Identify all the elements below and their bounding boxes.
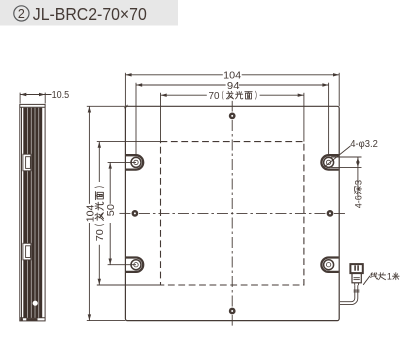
mounting tab bottom-left <box>126 258 143 272</box>
svg-text:JL-BRC2-70×70: JL-BRC2-70×70 <box>33 4 147 24</box>
dim text 70 (emitting face) rotated <box>95 187 106 242</box>
panel outline <box>125 106 339 320</box>
side view inner left line <box>21 107 23 318</box>
dim 4-6deep3 <box>331 157 361 197</box>
centerline vertical <box>231 101 233 326</box>
centerline horizontal <box>118 212 346 214</box>
side view clip lower <box>23 243 31 260</box>
side view bottom dark feet <box>20 318 37 320</box>
mid-edge dot top <box>229 113 236 120</box>
svg-text:3: 3 <box>353 180 364 185</box>
corner tick top-left <box>124 105 127 108</box>
side view bottom cap line <box>20 317 45 319</box>
svg-text:4-6: 4-6 <box>353 195 364 208</box>
mid-edge dot left <box>132 210 139 217</box>
label 4-phi3.2 with leader <box>323 146 350 168</box>
dim text 4-6 deep 3 rotated <box>353 180 364 208</box>
svg-text:104: 104 <box>85 204 96 222</box>
side view clip upper <box>23 154 31 171</box>
svg-text:70: 70 <box>209 91 220 102</box>
light emitting area dashed square <box>161 142 304 285</box>
side view hole <box>33 301 38 306</box>
mounting tab top-left <box>126 155 143 169</box>
svg-text:10.5: 10.5 <box>52 90 70 101</box>
header circled 2 <box>14 6 29 21</box>
dim 70 (emitting face) horizontal <box>161 93 304 142</box>
svg-text:1: 1 <box>387 272 392 282</box>
cable curve <box>340 285 358 304</box>
svg-text:70: 70 <box>95 229 106 241</box>
connector neck <box>355 283 359 285</box>
dim text 70 (emitting face) <box>209 91 257 102</box>
svg-text:50: 50 <box>106 204 117 217</box>
mounting tab top-right <box>321 155 338 169</box>
mid-edge dot right <box>327 210 334 217</box>
dim 104 vertical <box>87 106 126 320</box>
mounting tab bottom-right <box>321 258 338 272</box>
dimension 10.5 <box>20 93 51 104</box>
connector body lower <box>352 273 361 283</box>
connector body upper <box>350 264 362 273</box>
cable collar <box>354 289 360 291</box>
mid-edge dot bottom <box>229 308 236 315</box>
side view hatch block <box>23 108 42 318</box>
dim 104 horizontal <box>125 73 339 107</box>
svg-text:94: 94 <box>227 81 240 92</box>
dim 94 horizontal <box>136 83 329 155</box>
svg-text:2: 2 <box>18 7 25 21</box>
header bar <box>0 0 178 26</box>
svg-text:4-φ3.2: 4-φ3.2 <box>350 139 378 150</box>
dim 50 vertical <box>108 162 136 264</box>
hatch white separators <box>27 108 39 318</box>
side view outer body <box>20 104 45 321</box>
side view top cap line <box>20 106 45 108</box>
label cable length 1m with leader <box>363 276 370 285</box>
dim 70 (emitting face) vertical <box>97 142 161 285</box>
